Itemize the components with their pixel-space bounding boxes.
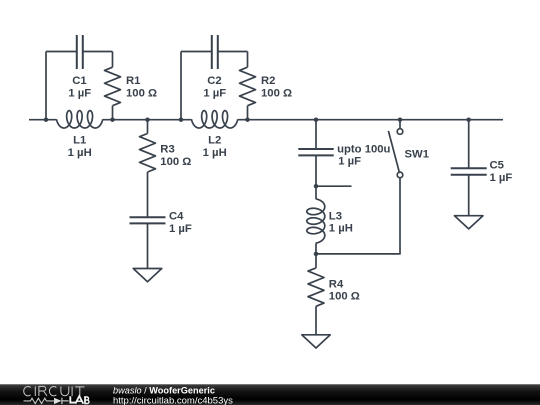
wire R1 bottom lead xyxy=(112,106,114,120)
wire C5 to ground xyxy=(468,175,470,216)
logo diode xyxy=(54,398,62,404)
svg-text:1 µH: 1 µH xyxy=(203,147,227,159)
wire R4 to ground xyxy=(315,306,317,335)
switch SW1 blade xyxy=(388,131,399,172)
inductor L2 xyxy=(192,111,238,128)
svg-text:1 µF: 1 µF xyxy=(68,87,91,99)
svg-text:1 µF: 1 µF xyxy=(490,172,513,184)
svg-text:1 µH: 1 µH xyxy=(329,223,353,235)
svg-text:C2: C2 xyxy=(207,75,221,87)
capacitor C1 xyxy=(77,35,83,69)
wire C5 top lead xyxy=(468,120,470,169)
node upto-cap top junction xyxy=(314,117,319,122)
logo wire with resistor xyxy=(24,398,54,403)
svg-text:R1: R1 xyxy=(126,75,140,87)
node between cap and L3 xyxy=(314,184,319,189)
svg-text:1 µF: 1 µF xyxy=(169,223,192,235)
node C5 top junction xyxy=(466,117,471,122)
svg-text:100 Ω: 100 Ω xyxy=(126,87,157,99)
wire L3 to R4 node xyxy=(315,243,317,254)
node R3 top junction xyxy=(145,117,150,122)
node switch top junction xyxy=(398,117,403,122)
logo CIRCUIT wordmark (drawn as vector strokes) xyxy=(24,386,85,396)
svg-text:R3: R3 xyxy=(160,144,174,156)
svg-text:C5: C5 xyxy=(490,160,504,172)
wire cap to L3 node xyxy=(315,155,317,186)
svg-text:L2: L2 xyxy=(208,135,221,147)
inductor L3 xyxy=(307,199,325,243)
wire R1 top lead xyxy=(112,52,114,68)
capacitor C5 xyxy=(451,168,487,175)
node right of L1 block xyxy=(110,117,115,122)
inductor L1 xyxy=(57,111,103,128)
svg-text:L1: L1 xyxy=(73,135,86,147)
svg-text:1 µF: 1 µF xyxy=(338,156,361,168)
wire R2 top lead xyxy=(247,52,249,68)
wire switch bottom to junction xyxy=(316,178,400,254)
capacitor C4 xyxy=(130,217,166,223)
resistor R4 xyxy=(308,268,324,306)
svg-text:C4: C4 xyxy=(169,211,184,223)
ground below R4 xyxy=(302,335,331,348)
wire left riser of C2/R2 block xyxy=(180,52,182,120)
resistor R3 xyxy=(140,134,156,173)
wire R3 to C4 xyxy=(147,172,149,217)
svg-text:http://circuitlab.com/c4b53ys: http://circuitlab.com/c4b53ys xyxy=(113,395,233,405)
switch SW1 top terminal xyxy=(397,129,403,135)
ground below C5 xyxy=(454,216,483,229)
node left of L1 block xyxy=(44,117,49,122)
svg-text:L3: L3 xyxy=(329,210,342,222)
wire top rail right of C2 xyxy=(218,51,248,53)
svg-text:R2: R2 xyxy=(261,75,275,87)
footer bar xyxy=(0,384,540,405)
wire left riser of C1/R1 block xyxy=(45,52,47,120)
wire R2 bottom lead xyxy=(247,106,249,120)
capacitor upto 100u xyxy=(298,149,333,155)
wire R3 top lead xyxy=(147,120,149,134)
svg-text:SW1: SW1 xyxy=(405,149,429,161)
svg-text:100 Ω: 100 Ω xyxy=(160,156,191,168)
resistor R1 xyxy=(105,67,121,106)
svg-text:1 µF: 1 µF xyxy=(203,87,226,99)
svg-text:1 µH: 1 µH xyxy=(68,147,92,159)
wire switch top stub xyxy=(399,120,401,129)
wire top rail left of C1 xyxy=(46,51,77,53)
capacitor C2 xyxy=(212,35,218,69)
svg-text:R4: R4 xyxy=(329,278,344,290)
wire cap top lead xyxy=(315,120,317,149)
wire top rail left of C2 xyxy=(181,51,212,53)
svg-text:100 Ω: 100 Ω xyxy=(329,291,360,303)
ground below C4 xyxy=(133,269,162,282)
svg-text:bwaslo / WooferGeneric: bwaslo / WooferGeneric xyxy=(113,385,215,395)
svg-text:upto 100u: upto 100u xyxy=(337,143,390,155)
svg-text:100 Ω: 100 Ω xyxy=(261,87,292,99)
node left of L2 block xyxy=(179,117,184,122)
wire C4 to ground xyxy=(147,223,149,268)
logo LAB (vector) xyxy=(70,396,89,404)
resistor R2 xyxy=(240,67,256,106)
switch SW1 bottom terminal xyxy=(397,172,403,178)
wire R4 top lead xyxy=(315,254,317,268)
svg-text:C1: C1 xyxy=(72,75,86,87)
wire stub right of node xyxy=(316,185,352,187)
node right of L2 block xyxy=(245,117,250,122)
wire top rail right of C1 xyxy=(83,51,113,53)
node L3/R4/switch junction xyxy=(314,252,319,257)
wire node to L3 xyxy=(315,186,317,199)
wire main horizontal net xyxy=(29,119,503,121)
